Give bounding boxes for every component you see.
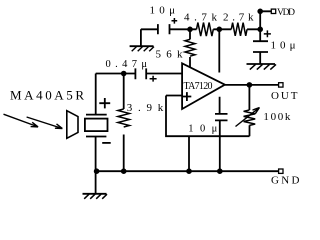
svg-text:MA40A5R: MA40A5R <box>10 88 84 103</box>
svg-text:10μ: 10μ <box>188 123 217 134</box>
svg-text:10μ: 10μ <box>271 40 296 52</box>
svg-text:0.47μ: 0.47μ <box>106 59 148 70</box>
svg-text:4.7k: 4.7k <box>184 12 218 24</box>
svg-text:3.9k: 3.9k <box>127 102 164 114</box>
svg-text:VDD: VDD <box>277 8 295 18</box>
svg-text:10μ: 10μ <box>150 4 176 16</box>
svg-text:TA7120: TA7120 <box>184 81 213 92</box>
svg-text:100k: 100k <box>263 111 291 123</box>
svg-text:OUT: OUT <box>271 90 298 102</box>
svg-text:56k: 56k <box>156 49 184 61</box>
svg-text:2.7k: 2.7k <box>223 12 254 24</box>
svg-text:GND: GND <box>271 175 300 187</box>
